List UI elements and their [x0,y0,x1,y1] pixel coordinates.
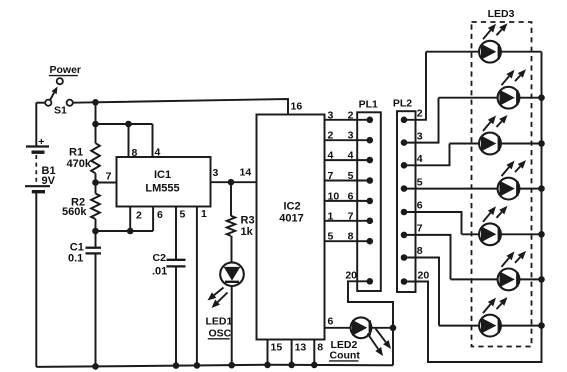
svg-text:470k: 470k [67,158,92,170]
svg-text:4: 4 [155,147,161,159]
svg-text:1: 1 [201,208,207,220]
svg-text:3: 3 [328,109,334,121]
svg-text:OSC: OSC [209,328,232,340]
svg-text:LED3: LED3 [488,8,515,20]
svg-text:6: 6 [417,200,423,212]
svg-text:7: 7 [106,171,112,183]
svg-text:8: 8 [348,231,354,243]
svg-text:4: 4 [417,153,423,165]
svg-text:20: 20 [345,270,357,282]
svg-text:560k: 560k [62,206,87,218]
svg-text:LED1: LED1 [206,316,233,328]
svg-text:5: 5 [348,170,354,182]
svg-text:3: 3 [348,130,354,142]
svg-text:LM555: LM555 [145,183,179,195]
svg-text:2: 2 [348,109,354,121]
svg-text:6: 6 [348,190,354,202]
svg-text:.01: .01 [152,266,167,278]
svg-text:7: 7 [348,210,354,222]
svg-text:9V: 9V [42,175,56,187]
svg-text:1: 1 [328,210,334,222]
svg-text:5: 5 [417,177,423,189]
svg-text:0.1: 0.1 [68,253,83,265]
svg-text:S1: S1 [54,105,67,117]
svg-text:3: 3 [213,167,219,179]
svg-text:7: 7 [328,170,334,182]
svg-text:Power: Power [50,64,82,76]
svg-text:IC2: IC2 [283,201,300,213]
svg-text:16: 16 [291,101,303,113]
svg-text:20: 20 [418,270,430,282]
svg-text:8: 8 [317,341,323,353]
svg-text:+: + [38,136,44,148]
svg-text:PL1: PL1 [359,99,378,111]
svg-text:8: 8 [132,147,138,159]
svg-text:R1: R1 [69,147,83,159]
svg-text:8: 8 [417,245,423,257]
svg-text:2: 2 [328,130,334,142]
svg-text:5: 5 [328,231,334,243]
svg-text:5: 5 [180,209,186,221]
svg-text:14: 14 [240,167,252,179]
svg-text:13: 13 [295,341,307,353]
svg-text:PL2: PL2 [393,97,412,109]
svg-text:1k: 1k [241,226,254,238]
svg-text:Count: Count [330,350,361,362]
svg-text:2: 2 [417,108,423,120]
svg-text:7: 7 [417,223,423,235]
svg-text:2: 2 [136,210,142,222]
svg-text:4: 4 [348,150,354,162]
svg-text:10: 10 [328,190,340,202]
svg-text:4017: 4017 [279,213,303,225]
svg-text:C2: C2 [153,252,167,264]
svg-text:R3: R3 [241,215,255,227]
svg-text:6: 6 [157,209,163,221]
svg-text:6: 6 [328,316,334,328]
svg-text:15: 15 [271,341,283,353]
svg-text:4: 4 [328,150,334,162]
svg-text:IC1: IC1 [154,169,171,181]
svg-text:3: 3 [417,131,423,143]
